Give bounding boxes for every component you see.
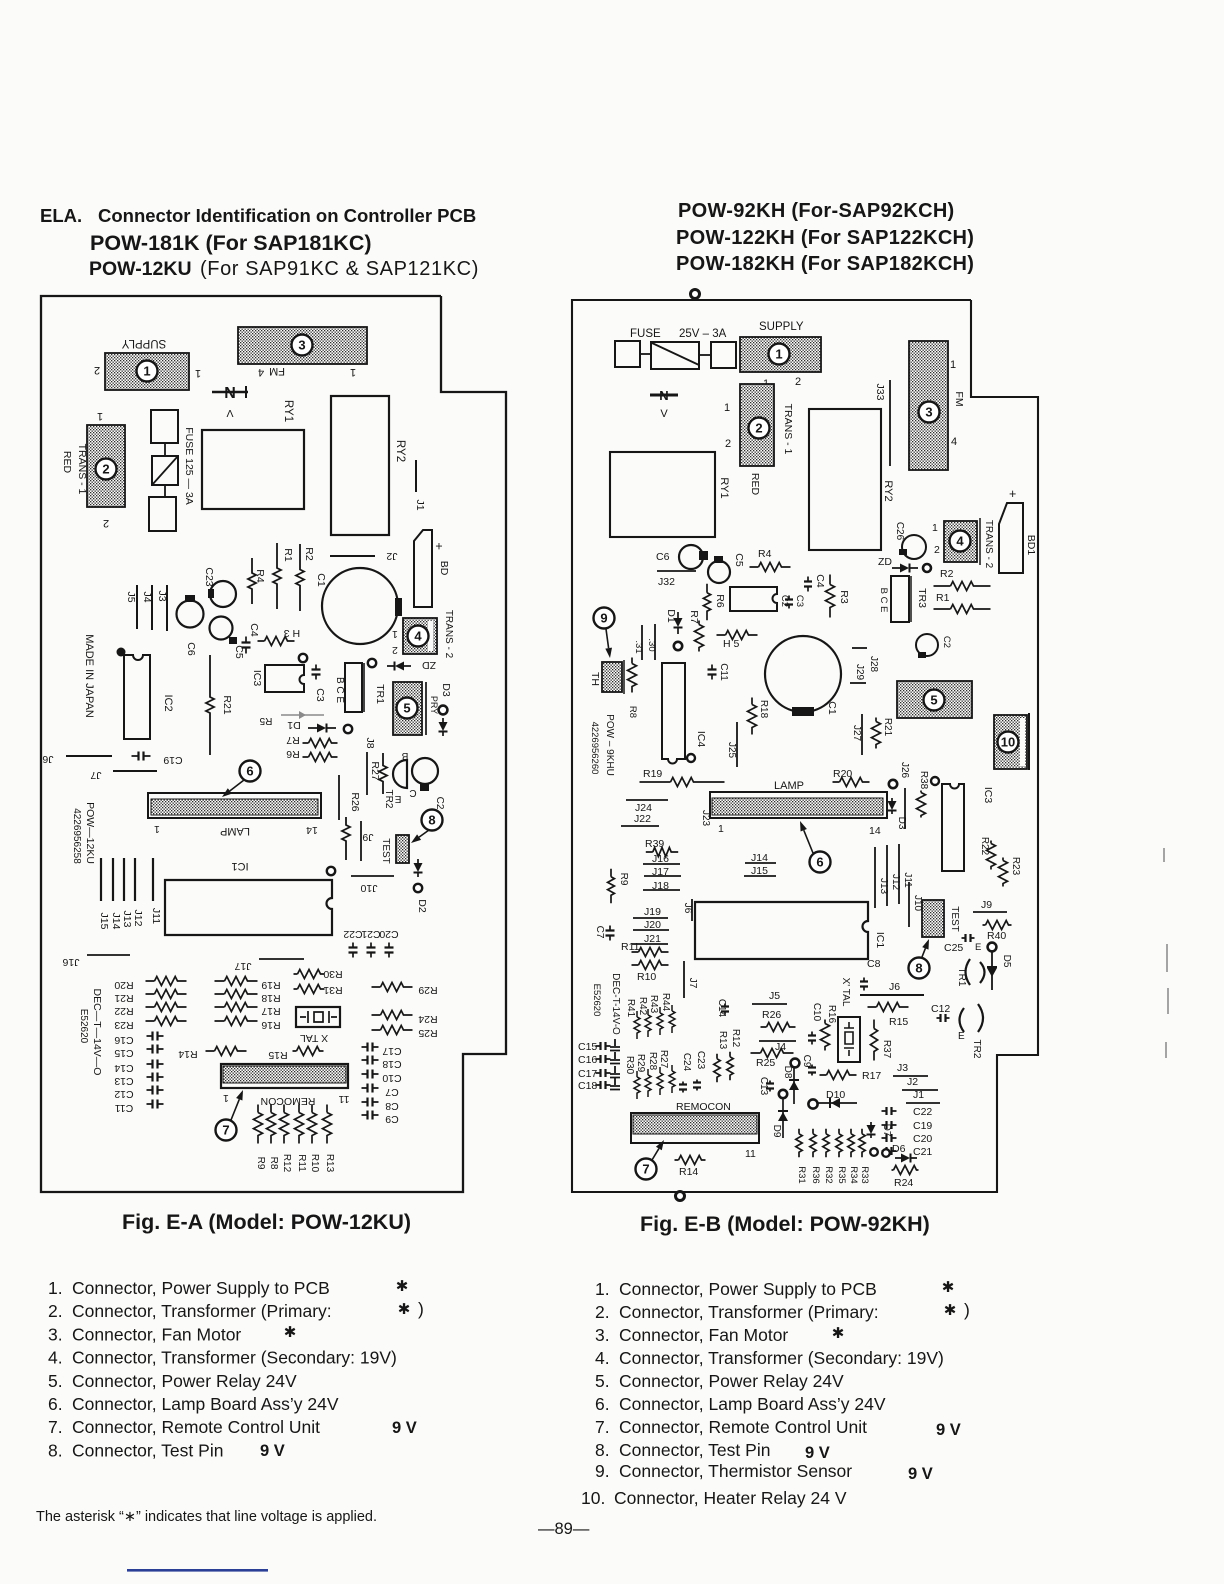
svg-text:7: 7: [222, 1123, 229, 1138]
svg-text:DEC-T-14V-O: DEC-T-14V-O: [610, 973, 621, 1035]
IC2: [124, 655, 150, 739]
svg-text:J2: J2: [386, 550, 397, 562]
svg-text:Connector, Transformer (Second: Connector, Transformer (Secondary: 19V): [619, 1348, 944, 1368]
resistor R8: [628, 658, 637, 693]
svg-text:J9: J9: [981, 899, 992, 911]
svg-text:R15: R15: [889, 1016, 908, 1028]
relay RY2 rectangle: [809, 409, 881, 550]
svg-text:FUSE: FUSE: [630, 328, 661, 340]
svg-text:C14: C14: [716, 999, 727, 1018]
svg-text:C9: C9: [801, 1055, 812, 1068]
wires J28 J29: [852, 647, 867, 649]
svg-text:R42: R42: [637, 997, 648, 1016]
svg-text:6: 6: [816, 855, 823, 870]
svg-text:D7: D7: [881, 1124, 892, 1137]
svg-text:R26: R26: [349, 792, 361, 811]
svg-text:2: 2: [94, 364, 100, 376]
svg-text:1: 1: [195, 367, 201, 379]
svg-text:J11: J11: [150, 908, 162, 924]
svg-text:IC1: IC1: [231, 860, 248, 872]
resistors R9 R8 R12 R11 R10 R13: [254, 1105, 263, 1144]
svg-text:Connector, Heater Relay 24 V: Connector, Heater Relay 24 V: [614, 1488, 847, 1508]
transistor TR2 pair: [393, 760, 407, 788]
svg-text:R3: R3: [838, 590, 850, 604]
svg-text:J8: J8: [364, 737, 376, 748]
svg-text:C1: C1: [826, 701, 838, 715]
connector 7 REMOCON: [221, 1064, 348, 1088]
svg-text:B C E: B C E: [878, 588, 889, 613]
svg-text:C10: C10: [811, 1003, 822, 1022]
svg-text:D9: D9: [771, 1125, 782, 1138]
svg-text:9 V: 9 V: [908, 1465, 933, 1483]
svg-text:✱: ✱: [942, 1279, 955, 1296]
svg-text:TRANS - 1: TRANS - 1: [76, 444, 88, 495]
svg-text:D8: D8: [782, 1066, 793, 1079]
svg-text:Fig. E-B (Model: POW-92KH): Fig. E-B (Model: POW-92KH): [640, 1212, 930, 1236]
svg-text:REMOCON: REMOCON: [261, 1095, 316, 1107]
svg-text:J16: J16: [62, 956, 79, 968]
wire J4: [759, 1040, 796, 1042]
connector 6 LAMP: [148, 793, 321, 818]
diode D6: [870, 1148, 878, 1156]
resistor R10: [632, 961, 669, 970]
svg-text:Connector, Power Relay 24V: Connector, Power Relay 24V: [72, 1371, 297, 1391]
IC3: [265, 665, 304, 692]
svg-text:R33: R33: [859, 1166, 870, 1183]
svg-text:10: 10: [1001, 735, 1015, 750]
relay RY2 rectangle: [331, 396, 389, 535]
svg-text:C24: C24: [681, 1053, 692, 1072]
svg-text:D3: D3: [440, 683, 452, 697]
svg-text:C16: C16: [578, 1054, 597, 1066]
svg-text:ZD: ZD: [878, 556, 892, 568]
resistor R3: [826, 575, 835, 618]
transistor TR1: [345, 663, 362, 712]
svg-text:R18: R18: [758, 700, 769, 719]
crystal X TAL: [296, 1007, 340, 1027]
svg-text:R24: R24: [418, 1013, 437, 1025]
svg-text:R10: R10: [637, 971, 656, 983]
svg-text:C19: C19: [913, 1120, 932, 1132]
svg-text:J7: J7: [687, 978, 698, 989]
svg-text:J29: J29: [854, 664, 865, 681]
svg-text:D6: D6: [892, 1143, 906, 1155]
svg-text:C: C: [409, 787, 416, 798]
capacitor C1 large: [765, 636, 841, 712]
connector 5 relay: [393, 682, 422, 735]
svg-text:R2: R2: [940, 568, 954, 580]
svg-text:IC3: IC3: [251, 670, 263, 687]
svg-text:R6: R6: [714, 594, 726, 608]
resistor R6: [703, 584, 710, 620]
svg-text:J3: J3: [156, 590, 168, 601]
svg-text:The asterisk “∗” indicates tha: The asterisk “∗” indicates that line vol…: [36, 1509, 377, 1525]
svg-text:C7: C7: [385, 1086, 399, 1098]
svg-text:J26: J26: [899, 762, 910, 779]
svg-text:J19: J19: [644, 906, 661, 918]
svg-text:C6: C6: [185, 642, 197, 656]
svg-text:R19: R19: [643, 768, 662, 780]
svg-text:2: 2: [795, 376, 801, 388]
svg-text:TRANS - 1: TRANS - 1: [782, 404, 794, 455]
svg-text:J2: J2: [907, 1076, 918, 1088]
wire J16: [87, 954, 130, 956]
svg-text:C2: C2: [941, 636, 952, 648]
svg-text:C2: C2: [434, 797, 445, 810]
resistor R37: [870, 1020, 877, 1061]
svg-text:J6: J6: [682, 903, 693, 914]
svg-text:2: 2: [755, 421, 762, 436]
svg-text:6.: 6.: [48, 1394, 63, 1414]
svg-text:IC4: IC4: [695, 731, 707, 748]
IC3: [942, 784, 964, 871]
capacitor C26: [902, 535, 926, 559]
svg-text:J32: J32: [658, 576, 675, 588]
svg-text:8.: 8.: [595, 1440, 610, 1460]
svg-text:POW-182KH (For SAP182KCH): POW-182KH (For SAP182KCH): [676, 253, 974, 275]
svg-text:R43: R43: [648, 995, 659, 1014]
svg-text:1: 1: [950, 359, 956, 371]
diode D3: [888, 798, 897, 814]
svg-text:14: 14: [869, 825, 881, 837]
svg-text:Connector, Remote Control Unit: Connector, Remote Control Unit: [619, 1417, 867, 1437]
capacitor C5: [708, 561, 730, 583]
wire J26: [889, 780, 897, 788]
svg-text:FUSE 125 — 3A: FUSE 125 — 3A: [183, 427, 195, 505]
resistor R14: [675, 1156, 706, 1165]
svg-text:C23: C23: [695, 1051, 706, 1070]
resistor R18: [748, 698, 757, 735]
capacitor C6: [679, 545, 703, 569]
wire segment left of R26: [338, 775, 340, 820]
svg-text:R29: R29: [635, 1054, 646, 1073]
callout circle 6 with arrow: [810, 852, 831, 873]
svg-text:REMOCON: REMOCON: [676, 1101, 731, 1113]
svg-text:+: +: [435, 539, 442, 553]
svg-text:): ): [418, 1299, 424, 1319]
svg-text:✱: ✱: [398, 1301, 411, 1318]
svg-text:—89—: —89—: [538, 1520, 590, 1538]
svg-text:7: 7: [642, 1162, 649, 1177]
svg-text:1: 1: [97, 410, 103, 422]
bridge BD: [414, 530, 432, 607]
wire J27: [861, 714, 863, 755]
svg-text:Connector, Transformer (Primar: Connector, Transformer (Primary:: [619, 1302, 879, 1322]
svg-text:C18: C18: [578, 1080, 597, 1092]
svg-text:9 V: 9 V: [805, 1444, 830, 1462]
svg-text:Connector, Test Pin: Connector, Test Pin: [619, 1440, 770, 1460]
svg-text:LAMP: LAMP: [220, 825, 250, 837]
svg-text:J23: J23: [700, 810, 711, 827]
svg-text:R16: R16: [826, 1005, 837, 1024]
svg-text:R25: R25: [756, 1057, 775, 1069]
svg-text:TEST: TEST: [949, 906, 960, 932]
svg-text:R23: R23: [1010, 857, 1021, 876]
svg-text:R16: R16: [261, 1019, 280, 1031]
svg-text:8: 8: [428, 813, 435, 828]
svg-text:C25: C25: [944, 942, 963, 954]
connector 8 TEST: [922, 900, 944, 937]
svg-text:R4: R4: [758, 548, 772, 560]
svg-text:R21: R21: [114, 992, 133, 1004]
svg-text:R22: R22: [979, 837, 990, 856]
svg-text:2.: 2.: [48, 1301, 63, 1321]
svg-text:R31: R31: [323, 984, 342, 996]
svg-text:C21: C21: [361, 928, 380, 940]
svg-text:TR2: TR2: [383, 790, 394, 809]
capacitor C6: [177, 601, 204, 628]
svg-text:E: E: [958, 1031, 965, 1042]
svg-text:C7: C7: [594, 926, 605, 939]
fuse assembly: [151, 410, 178, 443]
svg-text:Connector, Thermistor Sensor: Connector, Thermistor Sensor: [619, 1461, 852, 1481]
svg-text:C11: C11: [718, 663, 729, 681]
svg-text:DEC—T—14V—O: DEC—T—14V—O: [91, 989, 103, 1076]
svg-text:TRANS - 2: TRANS - 2: [983, 520, 994, 569]
svg-text:IC1: IC1: [874, 932, 886, 949]
svg-text:R22: R22: [114, 1005, 133, 1017]
svg-text:1: 1: [143, 364, 150, 379]
svg-text:C1: C1: [315, 573, 327, 587]
wire J17: [259, 958, 304, 960]
svg-text:R19: R19: [261, 979, 280, 991]
transistor TR1: [966, 959, 985, 985]
svg-text:J33: J33: [874, 384, 886, 401]
svg-text:): ): [964, 1300, 970, 1320]
svg-text:BD1: BD1: [1025, 535, 1037, 556]
relay RY1 rectangle: [202, 430, 304, 509]
mounting hole top: [691, 290, 700, 299]
svg-text:X' TAL: X' TAL: [840, 978, 851, 1007]
svg-text:R20: R20: [114, 979, 133, 991]
svg-text:C13: C13: [758, 1077, 769, 1096]
svg-text:E52620: E52620: [591, 984, 602, 1017]
svg-text:POW-12KU: POW-12KU: [89, 258, 192, 280]
svg-text:R10: R10: [309, 1154, 320, 1173]
svg-text:D2: D2: [416, 899, 428, 913]
svg-text:Connector, Lamp Board Ass’y 2: Connector, Lamp Board Ass’y 24V: [619, 1394, 886, 1414]
resistor R25: [751, 1049, 794, 1058]
svg-text:J11: J11: [902, 872, 913, 888]
svg-text:J6: J6: [889, 981, 900, 993]
svg-text:(For SAP91KC & SAP121KC): (For SAP91KC & SAP121KC): [200, 258, 479, 280]
svg-text:Connector, Transformer (Primar: Connector, Transformer (Primary:: [72, 1301, 332, 1321]
svg-text:RY1: RY1: [282, 400, 294, 422]
svg-text:IC2: IC2: [162, 694, 174, 711]
svg-text:J4: J4: [775, 1041, 786, 1053]
bridge BD1: [999, 503, 1023, 573]
svg-text:C12: C12: [114, 1088, 133, 1100]
zener ZD: [387, 662, 411, 671]
svg-text:9 V: 9 V: [936, 1421, 961, 1439]
resistor R29: [372, 983, 413, 992]
svg-text:R12: R12: [730, 1029, 741, 1048]
svg-text:R23: R23: [114, 1019, 133, 1031]
connector 9 TH thermistor: [602, 662, 622, 692]
svg-text:4: 4: [258, 366, 264, 378]
svg-text:1: 1: [223, 1092, 229, 1104]
svg-text:J5: J5: [769, 990, 780, 1002]
resistor R21 vertical: [206, 655, 214, 755]
wire J1: [415, 460, 417, 492]
svg-text:C8: C8: [867, 958, 881, 970]
wire J6: [66, 755, 112, 757]
connector 8 TEST: [396, 835, 409, 863]
svg-text:ELA.: ELA.: [40, 205, 82, 226]
svg-text:3: 3: [925, 405, 932, 420]
svg-text:TEST: TEST: [380, 838, 391, 864]
svg-text:R30: R30: [323, 968, 342, 980]
right board outline POW-92KH: [572, 300, 1038, 1192]
capacitors C22 C19 C20 C21: [882, 1110, 897, 1112]
connector 4 TRANS-2: [944, 521, 977, 562]
svg-text:✱: ✱: [396, 1278, 409, 1295]
resistor R38: [931, 777, 939, 785]
svg-text:C6: C6: [656, 551, 670, 563]
resistor R23: [999, 858, 1008, 887]
svg-text:C15: C15: [578, 1041, 597, 1053]
svg-text:C26: C26: [894, 522, 905, 541]
svg-text:X TAL: X TAL: [300, 1032, 328, 1044]
svg-text:C21: C21: [913, 1146, 932, 1158]
svg-text:2.: 2.: [595, 1302, 610, 1322]
resistor R27: [379, 753, 387, 794]
callout circle 8 with arrow: [422, 810, 443, 831]
svg-text:3: 3: [298, 338, 305, 353]
svg-text:R18: R18: [261, 992, 280, 1004]
resistor R15: [868, 1003, 909, 1012]
wire J33: [889, 380, 891, 466]
svg-text:Connector, Lamp Board Ass’y 2: Connector, Lamp Board Ass’y 24V: [72, 1394, 339, 1414]
callout circle 6 with arrow: [240, 761, 261, 782]
svg-text:J22: J22: [634, 813, 651, 825]
diode D5: [991, 952, 993, 990]
svg-text:9 V: 9 V: [260, 1442, 285, 1460]
svg-text:C13: C13: [114, 1075, 133, 1087]
svg-text:RY2: RY2: [882, 480, 894, 501]
svg-text:5.: 5.: [48, 1371, 63, 1391]
svg-text:C12: C12: [931, 1003, 950, 1015]
svg-text:R27: R27: [658, 1050, 669, 1069]
svg-text:R12: R12: [281, 1154, 292, 1173]
svg-text:C20: C20: [379, 928, 398, 940]
svg-text:2: 2: [102, 462, 109, 477]
svg-text:R38: R38: [918, 771, 929, 790]
capacitor C3: [312, 665, 321, 680]
svg-text:Connector, Transformer (Second: Connector, Transformer (Secondary: 19V): [72, 1348, 397, 1368]
svg-text:R40: R40: [987, 930, 1006, 942]
svg-text:TR1: TR1: [374, 684, 386, 704]
wire J2: [330, 555, 375, 557]
svg-text:J15: J15: [98, 913, 110, 930]
connector 4 TRANS-2 left board: [403, 618, 437, 654]
diode D9: [779, 1090, 787, 1098]
svg-text:R36: R36: [810, 1166, 821, 1183]
svg-text:2: 2: [392, 644, 398, 656]
connector 6 LAMP: [710, 792, 887, 818]
svg-text:FM: FM: [953, 391, 965, 406]
svg-text:LAMP: LAMP: [774, 780, 804, 792]
svg-text:8.: 8.: [48, 1440, 63, 1460]
svg-text:IC3: IC3: [982, 787, 994, 804]
resistor R31: [294, 985, 325, 994]
svg-text:R11: R11: [296, 1154, 307, 1172]
IC1: [695, 902, 868, 959]
resistor R25: [372, 1026, 413, 1035]
svg-text:9 V: 9 V: [392, 1419, 417, 1437]
resistor R40: [983, 921, 1012, 930]
capacitors C17 C18 C10 C7 C8 C9 column: [362, 1046, 379, 1048]
connector 3 FM: [909, 341, 948, 470]
svg-text:4.: 4.: [595, 1348, 610, 1368]
resistor R30: [294, 970, 325, 979]
svg-text:C20: C20: [913, 1133, 932, 1145]
svg-text:N: N: [224, 385, 236, 402]
svg-text:R31: R31: [796, 1166, 807, 1183]
page artifact marks right margin: [1164, 848, 1168, 1058]
svg-text:R6: R6: [286, 748, 300, 760]
svg-text:B C E: B C E: [334, 677, 345, 703]
transistor TR3: [891, 576, 909, 622]
svg-text:4226956258: 4226956258: [71, 808, 82, 864]
callout circle 7 with arrow: [216, 1120, 237, 1141]
svg-text:R44: R44: [660, 993, 671, 1012]
svg-text:N: N: [659, 388, 668, 403]
neon symbol N: [650, 394, 678, 397]
capacitor C2: [916, 634, 938, 656]
svg-text:4: 4: [951, 436, 957, 448]
resistor R24: [372, 1011, 413, 1020]
svg-text:H 5: H 5: [723, 638, 740, 650]
blue mark bottom: [127, 1569, 268, 1572]
svg-text:4: 4: [414, 629, 422, 644]
svg-text:R8: R8: [268, 1157, 279, 1170]
svg-text:25V – 3A: 25V – 3A: [679, 328, 727, 340]
svg-text:J14: J14: [110, 913, 122, 930]
svg-text:7.: 7.: [48, 1417, 63, 1437]
svg-text:R5: R5: [259, 715, 272, 726]
svg-text:V: V: [226, 407, 233, 419]
svg-text:PRY: PRY: [429, 696, 439, 714]
svg-text:+: +: [1009, 487, 1016, 501]
svg-text:2: 2: [725, 438, 731, 450]
connector 5 relay: [897, 681, 972, 718]
svg-text:Connector, Remote Control Unit: Connector, Remote Control Unit: [72, 1417, 320, 1437]
svg-text:RY1: RY1: [718, 477, 730, 498]
svg-text:10.: 10.: [581, 1488, 605, 1508]
svg-text:R32: R32: [823, 1166, 834, 1183]
svg-text:R13: R13: [717, 1031, 728, 1050]
svg-text:C3: C3: [314, 688, 326, 702]
svg-text:J17: J17: [234, 960, 251, 972]
svg-text:Connector, Power Supply to PCB: Connector, Power Supply to PCB: [619, 1279, 877, 1299]
svg-text:Connector, Fan Motor: Connector, Fan Motor: [72, 1324, 241, 1344]
connector 2 TRANS-1: [87, 425, 125, 507]
svg-text:E: E: [975, 942, 981, 953]
svg-text:R14: R14: [679, 1166, 698, 1178]
svg-text:R14: R14: [178, 1048, 197, 1060]
svg-text:R26: R26: [762, 1009, 781, 1021]
svg-text:E: E: [394, 793, 401, 804]
capacitor C25: [962, 937, 975, 939]
svg-text:R8: R8: [627, 706, 638, 718]
svg-text:J6: J6: [42, 753, 53, 765]
svg-text:POW-92KH (For-SAP92KCH): POW-92KH (For-SAP92KCH): [678, 200, 955, 222]
resistor R24: [892, 1166, 919, 1175]
svg-text:MADE IN JAPAN: MADE IN JAPAN: [83, 634, 95, 718]
svg-text:R27: R27: [369, 761, 381, 780]
IC1: [165, 880, 332, 935]
